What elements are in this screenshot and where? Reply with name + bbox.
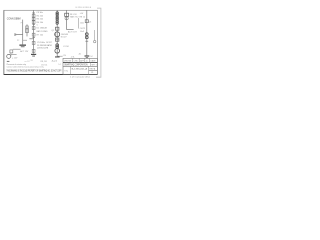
diode D2	[10, 50, 13, 53]
svg-text:R8 1k: R8 1k	[80, 17, 85, 19]
resistor R2	[32, 14, 35, 17]
resistor R6	[56, 38, 59, 41]
second bus wire	[56, 10, 58, 56]
svg-text:K1 NO: K1 NO	[63, 46, 69, 48]
title block divider row1	[63, 61, 97, 63]
wire contact stub	[78, 18, 80, 29]
ground	[85, 55, 90, 56]
svg-text:NAIS TX2: NAIS TX2	[70, 16, 78, 19]
svg-text:B-1355-10 REV A: B-1355-10 REV A	[76, 6, 92, 9]
resistor R5	[56, 27, 59, 30]
svg-text:R2 2k2: R2 2k2	[37, 15, 44, 17]
transistor Q3	[55, 49, 60, 54]
svg-text:C6: C6	[89, 21, 91, 23]
svg-text:STQ: STQ	[64, 70, 68, 72]
title block	[63, 58, 97, 74]
svg-text:REV A: REV A	[90, 67, 96, 70]
wire to ground rail	[57, 55, 62, 57]
node pin	[14, 34, 16, 36]
svg-text:Q3 BC547B: Q3 BC547B	[37, 48, 49, 50]
third bus wire right	[86, 10, 88, 55]
capacitor C3	[32, 12, 35, 14]
svg-text:P2: P2	[17, 40, 19, 42]
connector pin 6	[56, 22, 58, 24]
svg-text:ACT OUT: ACT OUT	[68, 30, 78, 33]
svg-text:C5 100n: C5 100n	[37, 42, 46, 44]
resistor R4	[32, 21, 35, 24]
node tick pin 5	[32, 24, 35, 26]
svg-text:A-gnd: A-gnd	[52, 60, 57, 63]
svg-text:P5: P5	[21, 22, 23, 24]
svg-text:SMARTRAQ CORPORATION: SMARTRAQ CORPORATION	[64, 63, 88, 66]
svg-text:BC327: BC327	[61, 37, 67, 39]
svg-text:DRN RW: DRN RW	[64, 60, 71, 62]
ground	[55, 56, 60, 57]
frame bottom heavy line	[4, 74, 98, 76]
wire from J1 down	[22, 20, 24, 35]
title block divider right cell	[89, 69, 98, 71]
node tick	[32, 37, 35, 39]
svg-text:BAT41 SMD: BAT41 SMD	[37, 30, 49, 33]
capacitor C5	[32, 41, 35, 44]
transistor Q1	[55, 32, 60, 37]
wire near border	[94, 30, 96, 41]
wire stub	[10, 53, 12, 57]
connector pin 5	[56, 20, 58, 22]
wire cross link	[23, 39, 27, 41]
svg-text:1 of 1 actuator drive: 1 of 1 actuator drive	[70, 76, 91, 79]
svg-text:A2: A2	[79, 52, 81, 55]
wire stub to ground	[22, 35, 24, 45]
wire second branch	[26, 24, 28, 36]
diode D6	[26, 26, 29, 29]
svg-text:D5 1N4148 BAT41: D5 1N4148 BAT41	[37, 44, 53, 47]
svg-text:SHT 1: SHT 1	[91, 64, 96, 66]
resistor R1	[26, 29, 29, 33]
svg-text:1/1: 1/1	[91, 72, 94, 74]
svg-text:BC327: BC327	[46, 42, 52, 44]
wire branch right	[67, 29, 74, 31]
connector pin 3	[56, 16, 58, 18]
svg-text:C3 10n: C3 10n	[36, 12, 42, 14]
svg-text:RL1 5V: RL1 5V	[70, 14, 77, 16]
diode D4	[65, 17, 68, 20]
transistor Q2	[7, 54, 11, 58]
svg-text:14: 14	[58, 64, 60, 66]
terminal circle	[94, 40, 96, 42]
svg-text:R7 10k: R7 10k	[37, 34, 43, 36]
node tick	[85, 40, 88, 42]
connector pin 1	[56, 12, 58, 14]
wire	[13, 48, 21, 50]
frame left line	[3, 10, 5, 74]
ground	[19, 45, 26, 46]
page outer edge right	[96, 8, 101, 77]
svg-text:B-1355-001-A: B-1355-001-A	[72, 68, 88, 71]
diode D5	[32, 49, 35, 52]
svg-text:C9, D4: C9, D4	[41, 65, 48, 67]
connector pin 7	[56, 44, 59, 47]
connector pin 9	[85, 33, 88, 36]
svg-text:DATE: DATE	[91, 59, 97, 62]
svg-text:10: 10	[86, 60, 88, 62]
wire from Q2	[11, 54, 17, 56]
svg-text:Connect cable shield to chassi: Connect cable shield to chassis ground o…	[7, 65, 44, 68]
svg-text:ACT 12V: ACT 12V	[20, 50, 29, 53]
svg-text:= 12V: = 12V	[12, 57, 18, 59]
svg-text:100n: 100n	[80, 22, 84, 24]
connector pin 2	[56, 14, 58, 16]
relay wire	[66, 10, 68, 29]
title block vertical dividers	[72, 58, 74, 62]
ground	[31, 54, 36, 55]
svg-text:R3 2k2: R3 2k2	[37, 19, 44, 21]
wire branch left	[29, 38, 33, 40]
diode D1	[32, 27, 35, 30]
svg-text:D1 1N4148: D1 1N4148	[37, 28, 48, 30]
wire horizontal to pin	[15, 34, 23, 36]
svg-text:CONN DB9M: CONN DB9M	[7, 17, 21, 21]
svg-text:THIS DRAWING IS THE SOLE PROPE: THIS DRAWING IS THE SOLE PROPERTY OF SMA…	[7, 70, 62, 73]
connector pin 4	[56, 18, 58, 20]
svg-text:R8, D8: R8, D8	[41, 61, 48, 63]
resistor R3	[32, 18, 35, 21]
connector pin 10	[85, 36, 88, 39]
drawing frame	[4, 10, 98, 74]
connector pin 8	[56, 46, 59, 49]
main bus wire center	[33, 10, 35, 53]
svg-text:OUT2: OUT2	[80, 28, 86, 30]
svg-text:R4 10k: R4 10k	[37, 22, 43, 24]
note dash	[7, 61, 10, 62]
title block divider row2	[63, 65, 97, 67]
relay K1 coil	[65, 13, 69, 16]
resistor R7	[32, 33, 35, 36]
resistor R8	[85, 20, 88, 23]
